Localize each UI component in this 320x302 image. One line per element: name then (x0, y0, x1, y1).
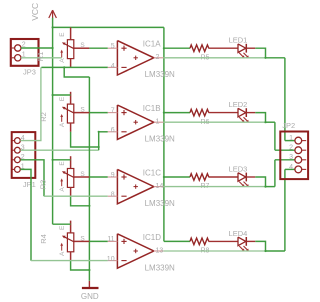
svg-text:IC1D: IC1D (143, 233, 161, 242)
op-amp comparator IC1C (108, 169, 164, 203)
svg-text:LM339N: LM339N (145, 263, 175, 272)
wire VCC branch to R4 top (53, 223, 71, 225)
LED LED4 (238, 237, 255, 252)
svg-text:E: E (59, 225, 66, 230)
wire IC1C output line to JP2 (163, 160, 294, 187)
wire R4 wiper to comparator non-inverting input (89, 240, 107, 242)
wire IC1A output line to JP2 (163, 58, 294, 141)
svg-text:IC1B: IC1B (143, 104, 161, 113)
svg-text:E: E (59, 32, 66, 37)
wire JP1 pin1 down to IC1D inverting input net (20, 169, 31, 260)
svg-text:1: 1 (156, 119, 160, 126)
wire R1 wiper to comparator non-inverting input (89, 47, 107, 49)
wire R7 to LED3 (209, 176, 239, 178)
wire VCC top rail (53, 26, 164, 28)
wire JP1 pin4 up to IC1A inverting input net (20, 67, 41, 140)
LED LED1 (238, 44, 255, 59)
wire IC1B output line to JP2 (163, 122, 294, 150)
resistor R8 (190, 238, 209, 245)
svg-text:S: S (80, 235, 85, 242)
svg-text:A: A (59, 251, 66, 256)
wire IC1D output line to JP2 (163, 169, 294, 251)
svg-text:2: 2 (289, 145, 293, 152)
trimmer potentiometer R4 (60, 221, 89, 261)
LED LED2 (238, 108, 255, 123)
svg-text:R4: R4 (39, 234, 48, 244)
connector JP3 (11, 39, 39, 66)
svg-text:A: A (59, 58, 66, 63)
svg-text:A: A (59, 187, 66, 192)
VCC supply symbol (30, 3, 56, 21)
op-amp comparator IC1B (108, 105, 164, 139)
svg-text:8: 8 (111, 192, 115, 199)
svg-text:2: 2 (156, 54, 160, 61)
wire IC1C inverting input line (44, 195, 108, 197)
resistor R5 (190, 45, 209, 52)
wire R6 to LED2 (209, 112, 239, 114)
wire R2 wiper to comparator non-inverting input (89, 112, 107, 114)
svg-text:LED2: LED2 (229, 100, 248, 109)
svg-text:5: 5 (111, 43, 115, 50)
wire VCC feed to R7 (164, 176, 190, 178)
svg-text:LED1: LED1 (229, 36, 248, 45)
svg-text:S: S (80, 42, 85, 49)
trimmer potentiometer R2 (60, 92, 89, 132)
svg-text:LED3: LED3 (229, 164, 248, 173)
trimmer potentiometer R1 (60, 27, 89, 67)
svg-text:4: 4 (289, 164, 293, 171)
wire JP1 pin3 to R2 net (long) (20, 149, 98, 151)
svg-text:E: E (59, 96, 66, 101)
wire link from IC1A inverting line down to ground trunk (64, 67, 89, 77)
svg-text:GND: GND (81, 292, 99, 301)
wire VCC branch to R3 top (53, 159, 71, 161)
wire LED4 cathode down to output net (255, 241, 265, 251)
wire IC1D inverting input line (31, 260, 108, 262)
svg-text:6: 6 (111, 127, 115, 134)
resistor R6 (190, 109, 209, 116)
trimmer potentiometer R3 (60, 156, 89, 196)
svg-text:S: S (80, 107, 85, 114)
svg-text:IC1A: IC1A (143, 40, 161, 49)
connector JP1 (12, 132, 36, 178)
wire VCC feed vertical to pull-up resistors (163, 27, 165, 241)
svg-text:4: 4 (111, 63, 115, 70)
wire JP3 pin1 to R1 wiper arrow (21, 57, 62, 59)
svg-text:3: 3 (289, 154, 293, 161)
svg-text:R2: R2 (39, 112, 48, 122)
op-amp comparator IC1A (108, 41, 164, 75)
wire VCC feed to R8 (164, 240, 190, 242)
svg-text:10: 10 (107, 256, 115, 263)
svg-text:LM339N: LM339N (145, 199, 175, 208)
wire LED3 cathode down to output net (255, 177, 265, 187)
svg-text:A: A (59, 122, 66, 127)
svg-text:IC1C: IC1C (143, 168, 161, 177)
svg-text:JP2: JP2 (282, 121, 295, 130)
wire R2 bottom to JP1 pin3 net (71, 132, 99, 150)
wire VCC branch to R2 top (53, 94, 71, 96)
wire R8 to LED4 (209, 240, 239, 242)
svg-text:E: E (59, 161, 66, 166)
svg-text:LM339N: LM339N (145, 135, 175, 144)
svg-text:JP1: JP1 (23, 180, 36, 189)
wire LED1 cathode down to output net (255, 48, 265, 58)
wire JP1 pin2 down to IC1C inverting input net (20, 160, 44, 196)
wire IC1B inverting input line (99, 131, 108, 133)
svg-text:VCC: VCC (30, 3, 40, 21)
connector JP2 (280, 132, 308, 180)
svg-text:1: 1 (289, 135, 293, 142)
wire R3 bottom to ground trunk (71, 196, 90, 206)
svg-text:LM339N: LM339N (145, 70, 175, 79)
resistor R7 (190, 174, 209, 181)
wire VCC feed to R6 (164, 112, 190, 114)
ground symbol GND (81, 281, 99, 301)
wire VCC vertical trunk V1 (52, 18, 54, 224)
wire R4 bottom to ground link (71, 261, 90, 270)
svg-text:7: 7 (111, 107, 115, 114)
svg-text:R1: R1 (36, 52, 45, 62)
svg-text:14: 14 (156, 183, 164, 190)
wire R5 to LED1 (209, 47, 239, 49)
LED LED3 (238, 173, 255, 188)
svg-text:9: 9 (111, 172, 115, 179)
wire R3 wiper to comparator non-inverting input (89, 176, 107, 178)
wire ground trunk vertical (88, 77, 90, 281)
wire JP3 pin2 to VCC (21, 47, 53, 49)
wire VCC feed to R5 (164, 47, 190, 49)
svg-text:R3: R3 (39, 180, 48, 190)
svg-text:JP3: JP3 (23, 67, 36, 76)
wire IC1A inverting input line (41, 66, 107, 68)
op-amp comparator IC1D (108, 234, 164, 268)
svg-text:11: 11 (107, 236, 114, 243)
svg-text:S: S (80, 171, 85, 178)
svg-text:13: 13 (156, 247, 164, 254)
wire LED2 cathode down to output net (255, 113, 265, 123)
svg-text:LED4: LED4 (229, 229, 248, 238)
